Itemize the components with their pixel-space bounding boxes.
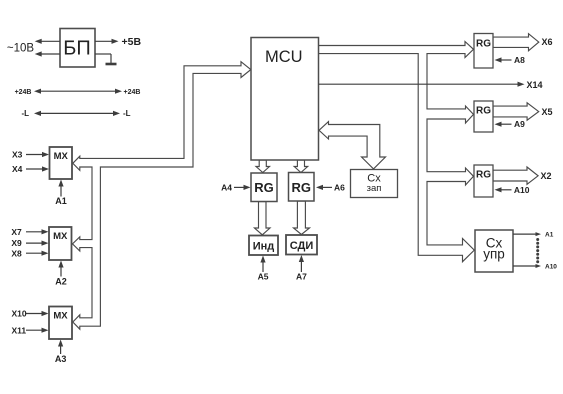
svg-text:X9: X9 bbox=[11, 238, 22, 248]
svg-text:А10: А10 bbox=[514, 185, 530, 195]
svg-text:RG: RG bbox=[292, 180, 312, 195]
svg-text:MX: MX bbox=[54, 151, 69, 162]
svg-text:X14: X14 bbox=[527, 80, 543, 90]
svg-text:RG: RG bbox=[476, 170, 491, 181]
svg-text:+5В: +5В bbox=[122, 36, 142, 48]
svg-text:-L: -L bbox=[123, 109, 131, 118]
svg-text:А10: А10 bbox=[545, 264, 557, 271]
svg-text:А6: А6 bbox=[334, 182, 345, 192]
svg-text:А2: А2 bbox=[55, 276, 67, 286]
svg-text:X5: X5 bbox=[542, 107, 553, 117]
svg-text:СДИ: СДИ bbox=[290, 240, 314, 252]
svg-text:А1: А1 bbox=[55, 196, 67, 206]
svg-text:А4: А4 bbox=[221, 182, 232, 192]
svg-text:упр: упр bbox=[483, 247, 505, 262]
svg-text:RG: RG bbox=[476, 39, 491, 50]
svg-text:X11: X11 bbox=[12, 325, 27, 335]
svg-text:X8: X8 bbox=[11, 248, 22, 258]
svg-text:MX: MX bbox=[53, 231, 68, 242]
svg-text:X6: X6 bbox=[542, 37, 553, 47]
svg-text:А7: А7 bbox=[296, 272, 307, 282]
svg-text:Инд: Инд bbox=[253, 241, 275, 253]
svg-text:~10В: ~10В bbox=[7, 42, 35, 54]
svg-text:+24В: +24В bbox=[15, 89, 32, 96]
svg-text:А9: А9 bbox=[514, 119, 525, 129]
svg-text:RG: RG bbox=[476, 106, 491, 117]
svg-text:X4: X4 bbox=[12, 164, 23, 174]
svg-text:А5: А5 bbox=[258, 272, 269, 282]
svg-text:X7: X7 bbox=[11, 227, 22, 237]
svg-text:А1: А1 bbox=[545, 232, 554, 239]
svg-text:-L: -L bbox=[21, 109, 29, 118]
svg-text:RG: RG bbox=[254, 180, 274, 195]
svg-text:MCU: MCU bbox=[265, 48, 303, 66]
svg-text:X10: X10 bbox=[12, 309, 27, 319]
svg-text:MX: MX bbox=[53, 311, 68, 322]
svg-text:А8: А8 bbox=[514, 55, 525, 65]
svg-text:зап: зап bbox=[367, 183, 382, 194]
svg-text:X2: X2 bbox=[541, 171, 552, 181]
svg-text:А3: А3 bbox=[55, 354, 67, 364]
svg-text:+24В: +24В bbox=[124, 89, 141, 96]
svg-text:БП: БП bbox=[63, 37, 91, 59]
svg-text:X3: X3 bbox=[12, 150, 23, 160]
